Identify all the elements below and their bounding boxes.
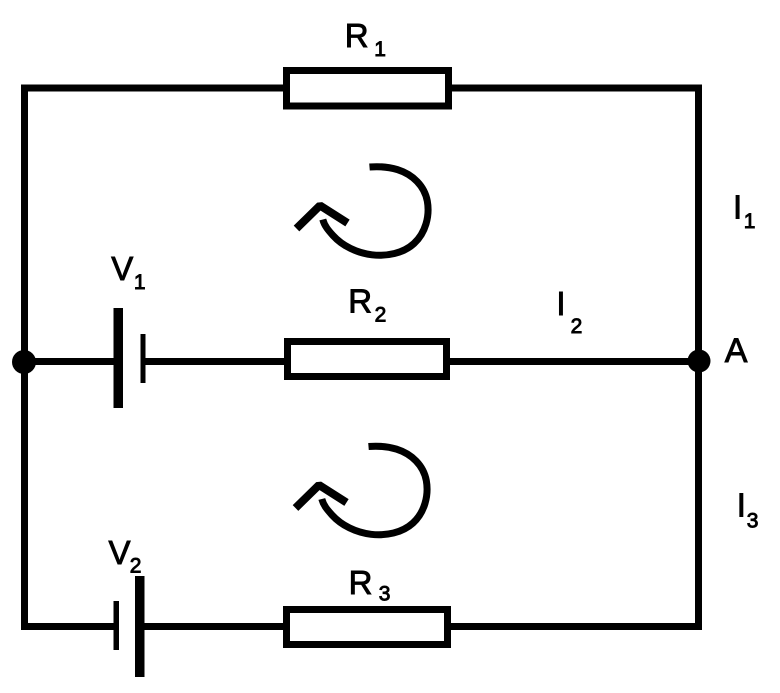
label R3 — [349, 564, 391, 606]
label R1 — [345, 17, 386, 61]
wire: middle branch left segment — [21, 358, 118, 365]
svg-text:I: I — [737, 487, 746, 524]
battery V2 — [114, 576, 145, 677]
svg-text:I: I — [733, 188, 742, 225]
svg-text:1: 1 — [134, 271, 146, 294]
label current I3 — [737, 487, 759, 533]
svg-text:1: 1 — [744, 210, 756, 233]
svg-text:I: I — [556, 285, 565, 322]
resistor R3 — [287, 610, 448, 645]
mesh loop arrow 2 (clockwise) — [296, 446, 428, 535]
svg-text:R: R — [345, 17, 369, 54]
label V1 — [111, 250, 145, 294]
label R2 — [348, 283, 386, 327]
node: left junction — [12, 350, 36, 374]
wire: right vertical branch — [695, 85, 702, 631]
svg-text:R: R — [349, 564, 373, 601]
svg-text:3: 3 — [747, 510, 759, 533]
label current I2 — [556, 285, 582, 338]
battery V1 — [114, 308, 146, 408]
resistor R2 — [288, 342, 447, 377]
svg-text:A: A — [725, 332, 748, 370]
mesh loop arrow 1 (clockwise) — [297, 167, 429, 256]
node A junction dot — [688, 350, 711, 373]
svg-text:2: 2 — [375, 304, 387, 327]
label node A — [725, 332, 748, 370]
svg-text:R: R — [348, 283, 372, 320]
label V2 — [109, 534, 142, 577]
svg-text:V: V — [111, 250, 133, 287]
svg-text:V: V — [109, 534, 131, 571]
label current I1 — [733, 188, 755, 232]
svg-text:3: 3 — [379, 583, 391, 606]
wire: top branch — [21, 85, 702, 92]
svg-text:2: 2 — [130, 554, 142, 577]
wire: bottom branch right segment — [137, 623, 702, 630]
wire: bottom branch left segment — [21, 623, 116, 630]
resistor R1 — [287, 71, 449, 107]
wire: middle branch right segment — [142, 358, 699, 365]
wire: left vertical branch — [21, 85, 28, 631]
svg-text:1: 1 — [374, 38, 386, 61]
svg-text:2: 2 — [571, 315, 583, 338]
